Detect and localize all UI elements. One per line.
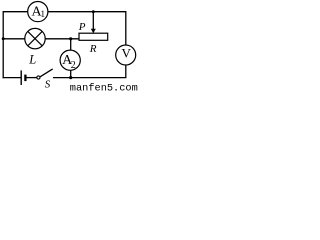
svg-text:S: S xyxy=(45,78,51,90)
svg-text:V: V xyxy=(122,45,132,60)
svg-text:R: R xyxy=(89,43,97,55)
svg-text:manfen5.com: manfen5.com xyxy=(70,83,138,92)
svg-text:1: 1 xyxy=(41,9,46,19)
svg-text:P: P xyxy=(78,21,86,33)
svg-text:2: 2 xyxy=(71,60,76,71)
svg-text:L: L xyxy=(28,53,36,67)
